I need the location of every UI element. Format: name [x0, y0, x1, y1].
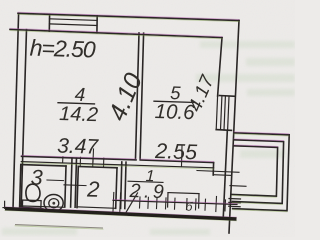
- hatch tick 7: [174, 198, 177, 209]
- right wall inner line upper: [218, 38, 222, 96]
- top wall inner line: [10, 29, 222, 37]
- hatch tick 8: [186, 199, 189, 210]
- dim tick for 3.47: [92, 149, 95, 162]
- hatch tick 2: [119, 193, 122, 212]
- door jamb tick a: [62, 157, 64, 163]
- window W2 vertical 4: [228, 97, 229, 131]
- washer inner circle: [49, 199, 59, 208]
- door jamb tick b: [79, 157, 81, 166]
- hatch tick 11: [215, 197, 218, 212]
- fraction line room5: [154, 101, 195, 102]
- hatch tick 1: [112, 193, 115, 212]
- step line to right wall: [213, 174, 231, 177]
- washer outer circle: [44, 195, 63, 212]
- room2 top edge: [78, 167, 117, 168]
- balcony inner rect: [232, 146, 278, 196]
- partition 2|1 line B: [125, 162, 126, 208]
- fraction line room4: [58, 103, 95, 104]
- door sill bar 2: [229, 201, 241, 204]
- hatch tick 3: [139, 197, 142, 208]
- central wall line A (room4 side): [136, 33, 140, 159]
- closet left edge: [167, 193, 169, 207]
- entry hatch line: [113, 200, 237, 204]
- hatch tick 5: [156, 198, 159, 209]
- window W1 mid line 2: [50, 24, 98, 26]
- room3 top edge: [21, 165, 66, 166]
- hatch tick 10: [204, 199, 207, 210]
- room3 right edge: [65, 166, 66, 207]
- partition 2|1 line A: [121, 162, 122, 208]
- hatch tick 6: [165, 198, 168, 209]
- partition 3|2 line B: [75, 158, 76, 207]
- dim tick for 2.55: [181, 146, 184, 166]
- hatch tick 4: [147, 197, 150, 208]
- door sill bar 1: [229, 198, 241, 201]
- thick bottom outer wall: [5, 209, 237, 219]
- balcony door jamb line: [230, 185, 246, 188]
- window W2 vertical 1: [216, 96, 217, 130]
- window W2 vertical 2: [221, 96, 222, 130]
- right wall inner line lower: [223, 131, 227, 217]
- left wall inner line: [21, 30, 26, 207]
- toilet base line: [21, 207, 44, 209]
- room2 right edge: [116, 168, 117, 209]
- room3 left edge: [20, 165, 21, 207]
- window W1 left cap: [48, 14, 50, 31]
- window W1 right cap: [96, 16, 98, 33]
- window W2 vertical 3: [224, 96, 225, 130]
- central wall line B (room5 side): [140, 33, 144, 159]
- middle wall upper line right segment: [140, 160, 213, 163]
- door jamb tick d: [103, 158, 105, 167]
- balcony middle rect: [232, 140, 283, 204]
- balcony door floor line: [197, 171, 239, 173]
- window W2 in right wall: top cap: [220, 95, 236, 98]
- entry door swing diagonal: [126, 193, 137, 212]
- washer center dot: [52, 202, 55, 205]
- thin underline below bottom wall: [15, 225, 103, 228]
- room2 bottom edge: [77, 207, 116, 209]
- partition 3|2 line A: [71, 158, 72, 207]
- top wall outer line: [18, 13, 239, 20]
- balcony outer rect: [233, 133, 290, 211]
- room3 bottom edge: [20, 206, 65, 207]
- right wall outer line: [229, 21, 239, 234]
- closet top line: [168, 193, 199, 194]
- outside step horizontal: [3, 207, 14, 209]
- window W1 in top wall: mid line 1: [50, 19, 98, 21]
- middle wall lower line: [21, 162, 213, 168]
- outside step vertical at bottom-left: [4, 201, 6, 208]
- middle wall upper line left segment: [22, 156, 137, 160]
- window W2 bottom cap: [216, 129, 231, 132]
- door sill bar 3: [229, 205, 241, 208]
- room2 leader dash: [64, 184, 86, 187]
- hatch tick 12: [224, 200, 227, 211]
- faint green bleed-through text rows (back of page): [2, 41, 295, 235]
- left wall outer line: [13, 13, 19, 209]
- toilet bowl: [26, 184, 40, 201]
- toilet tank: [22, 200, 41, 208]
- fraction line room1: [128, 181, 163, 182]
- door jamb tick c: [92, 158, 94, 167]
- room2 left edge: [77, 167, 78, 208]
- step vertical at hall right: [212, 163, 214, 175]
- hatch tick 9: [195, 199, 198, 210]
- room3 leader dash: [47, 179, 64, 182]
- closet right edge: [198, 194, 200, 208]
